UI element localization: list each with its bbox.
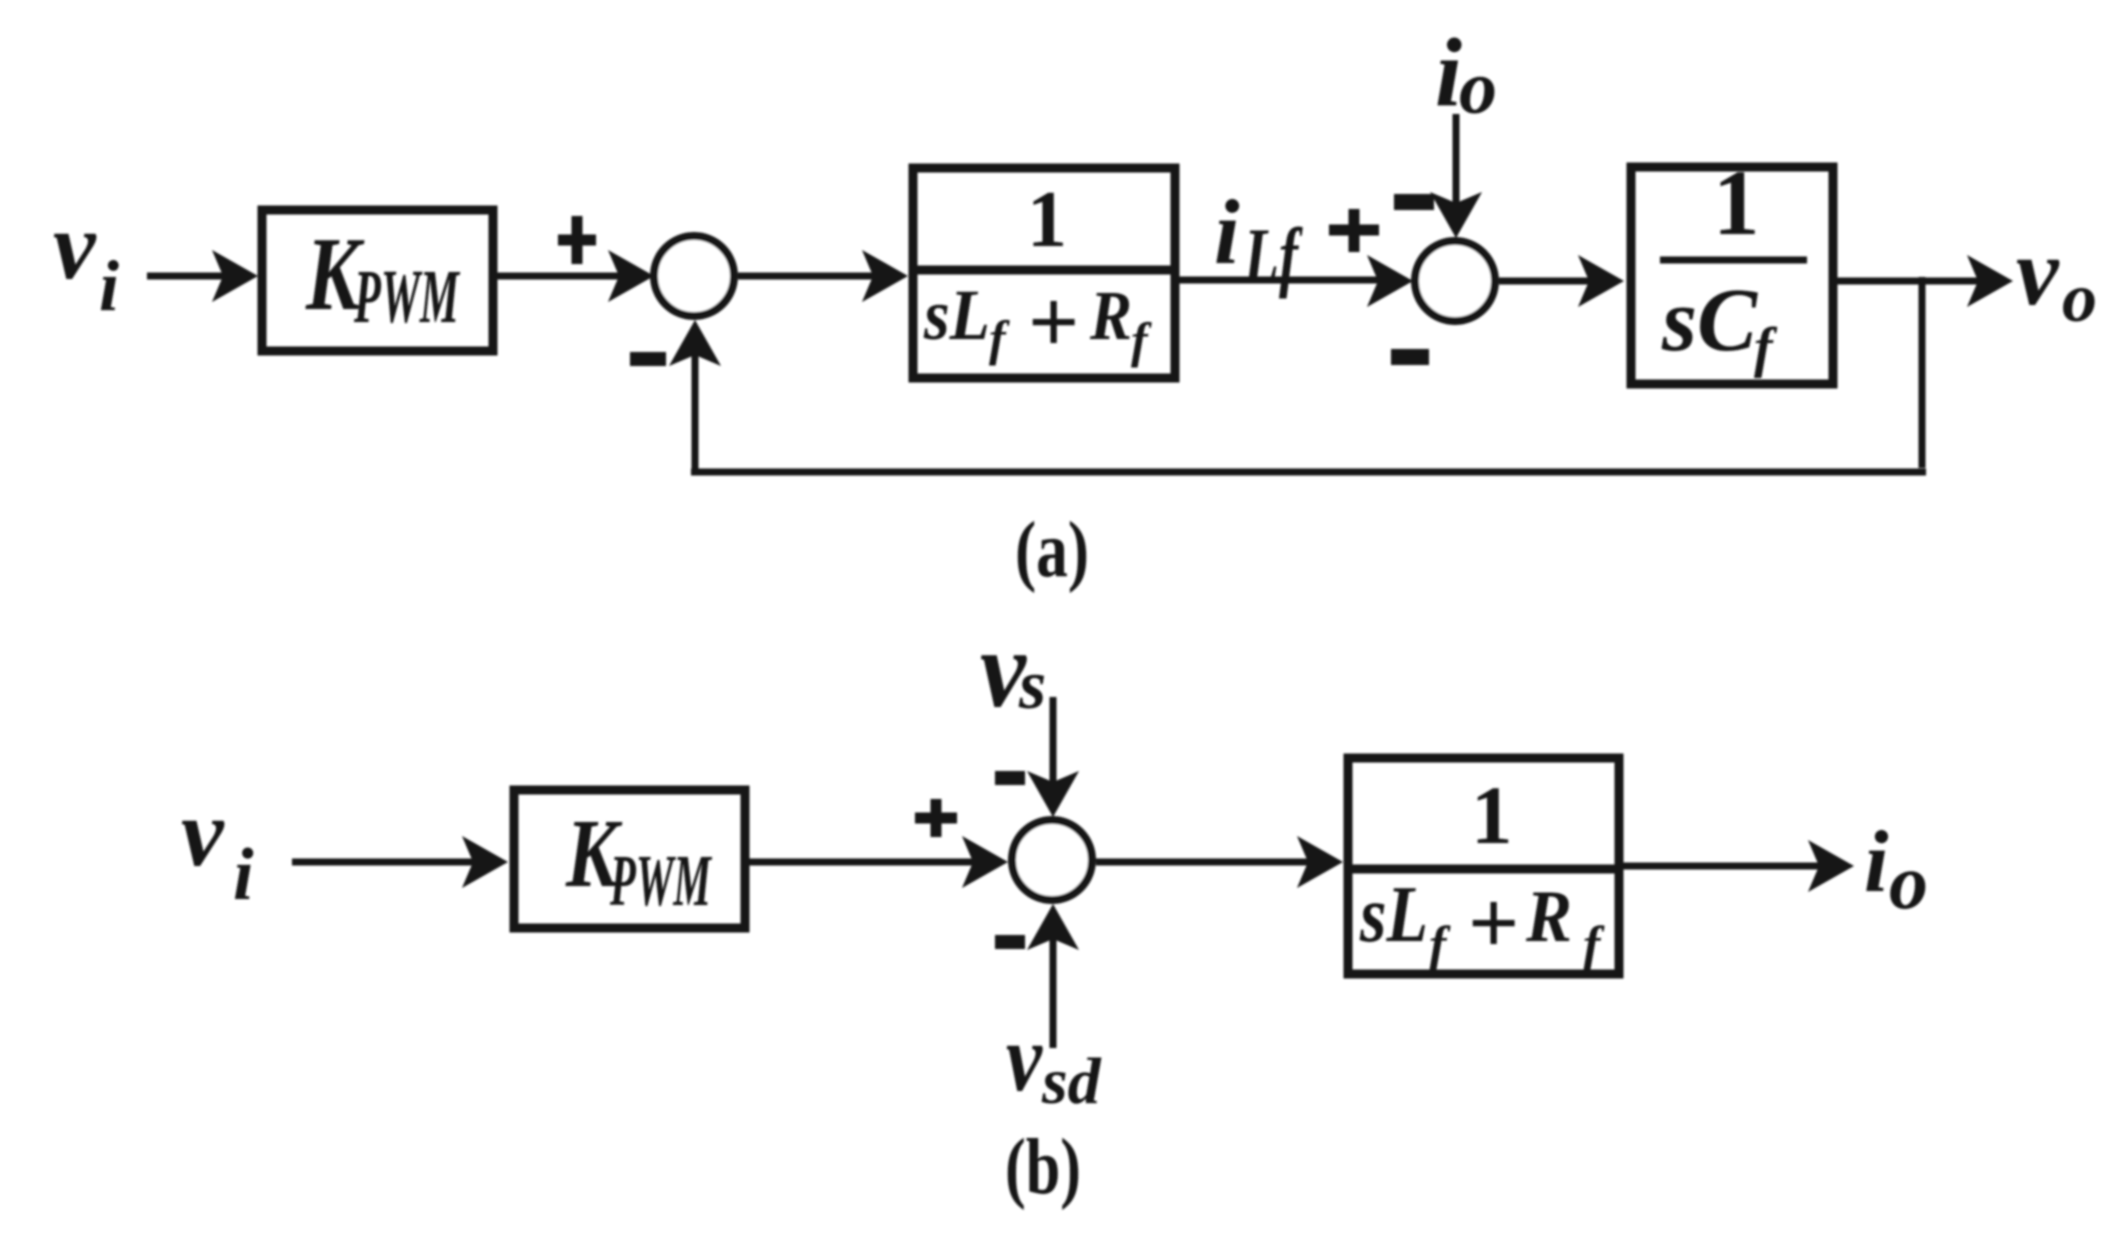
wire KPWM to sum S1 [497,273,624,280]
feedback wire horizontal (a) [691,469,1926,476]
arrowhead to vo [1967,255,2013,307]
minus sign at S3 top input [995,771,1025,785]
denominator sCf of G2 [1661,271,1778,379]
transfer block G1 = 1/(sLf+Rf) (a) [913,168,1175,378]
arrowhead down into S2 [1430,192,1482,238]
svg-text:R: R [1089,278,1132,355]
arrowhead into sum S1 [608,250,654,302]
transfer block G2 = 1/(sCf) (a) [1631,167,1833,384]
svg-text:1: 1 [1713,152,1760,255]
svg-text:Lf: Lf [1243,212,1303,299]
arrowhead into sum S2 [1367,255,1413,307]
wire vi to KPWM (b) [292,859,478,866]
arrowhead into KPWM (b) [462,836,508,888]
svg-text:1: 1 [1027,176,1067,264]
wire S1 to block G1 [738,273,878,280]
node io label top (a) [1435,19,1497,130]
node vsd label bottom (b) [1006,1004,1102,1118]
wire S3 to block G3 [1096,859,1313,866]
svg-text:sd: sd [1041,1045,1102,1118]
node vo label [2016,218,2097,337]
svg-text:PWM: PWM [609,840,712,921]
arrowhead to io [1808,840,1854,892]
denominator sLf+Rf of G3 [1359,871,1605,974]
label KPWM (b) [565,800,712,921]
arrowhead down into S3 top [1027,771,1079,817]
minus sign at S3 bottom input [995,935,1025,949]
minus sign at S2 bottom [1391,349,1429,365]
svg-text:v: v [181,779,225,886]
svg-text:o: o [2062,260,2097,337]
svg-text:i: i [1864,814,1889,911]
wire vi to KPWM (a) [147,273,228,280]
wire G2 to output vo [1837,278,1983,285]
svg-text:i: i [1214,181,1240,283]
wire G3 to output io [1623,863,1824,870]
arrowhead into sum S3 [962,836,1008,888]
arrowhead into block G2 [1578,255,1624,307]
plus sign at S3 left input [915,799,957,837]
wire vs down into S3 [1050,697,1057,787]
svg-text:s: s [1018,647,1046,724]
arrowhead into block G1 [862,250,908,302]
minus sign at S2 top input [1394,194,1434,210]
fraction bar G1 [909,266,1179,275]
svg-text:sL: sL [923,275,990,355]
wire vsd up into S3 bottom [1050,934,1057,1048]
summing junction S3 [1012,820,1092,900]
wire G1 to sum S2 with label iLf [1179,277,1383,284]
node vi label (a) [53,192,119,326]
svg-text:v: v [1006,1004,1043,1111]
wire io down into S2 [1453,114,1460,208]
minus sign at S1 feedback input [630,352,666,366]
svg-text:sC: sC [1661,271,1758,370]
svg-text:(a): (a) [1015,507,1089,594]
svg-text:sL: sL [1359,871,1428,959]
svg-text:i: i [99,246,119,326]
arrowhead up into S3 bottom [1027,904,1079,950]
denominator sLf+Rf of G1 [923,273,1152,372]
plus sign at S2 left input [1329,209,1379,252]
svg-text:PWM: PWM [353,255,460,339]
svg-text:+: + [1468,874,1519,973]
svg-text:o: o [1889,838,1928,925]
svg-text:(b): (b) [1005,1124,1081,1211]
wire KPWM to sum S3 [745,859,978,866]
node vs label top (b) [980,608,1046,730]
node io label (b) [1864,814,1928,925]
transfer block G3 = 1/(sLf+Rf) (b) [1348,758,1619,974]
svg-text:+: + [1028,273,1079,372]
svg-text:v: v [53,192,97,299]
fraction bar G2 [1660,257,1807,264]
svg-text:1: 1 [1471,769,1513,861]
fraction bar G3 [1344,865,1623,874]
svg-text:R: R [1525,876,1572,958]
svg-text:i: i [233,834,254,916]
summing junction S1 [654,236,734,316]
feedback wire from vo line down (a) [1919,277,1926,468]
arrowhead into block G3 [1297,836,1343,888]
gain block KPWM (a) [262,210,493,351]
svg-text:o: o [1459,46,1497,130]
node label iLf [1214,181,1303,299]
node vi label (b) [181,779,254,916]
svg-text:i: i [1435,19,1462,126]
summing junction S2 [1415,241,1495,321]
label KPWM (a) [305,215,460,339]
arrowhead up into S1 bottom [669,320,721,366]
feedback wire up into S1 (a) [692,350,699,472]
svg-text:v: v [2016,218,2060,325]
arrowhead into KPWM (a) [212,250,258,302]
plus sign at S1 input [558,216,596,264]
wire S2 to block G2 [1499,278,1594,285]
gain block KPWM (b) [514,790,745,928]
